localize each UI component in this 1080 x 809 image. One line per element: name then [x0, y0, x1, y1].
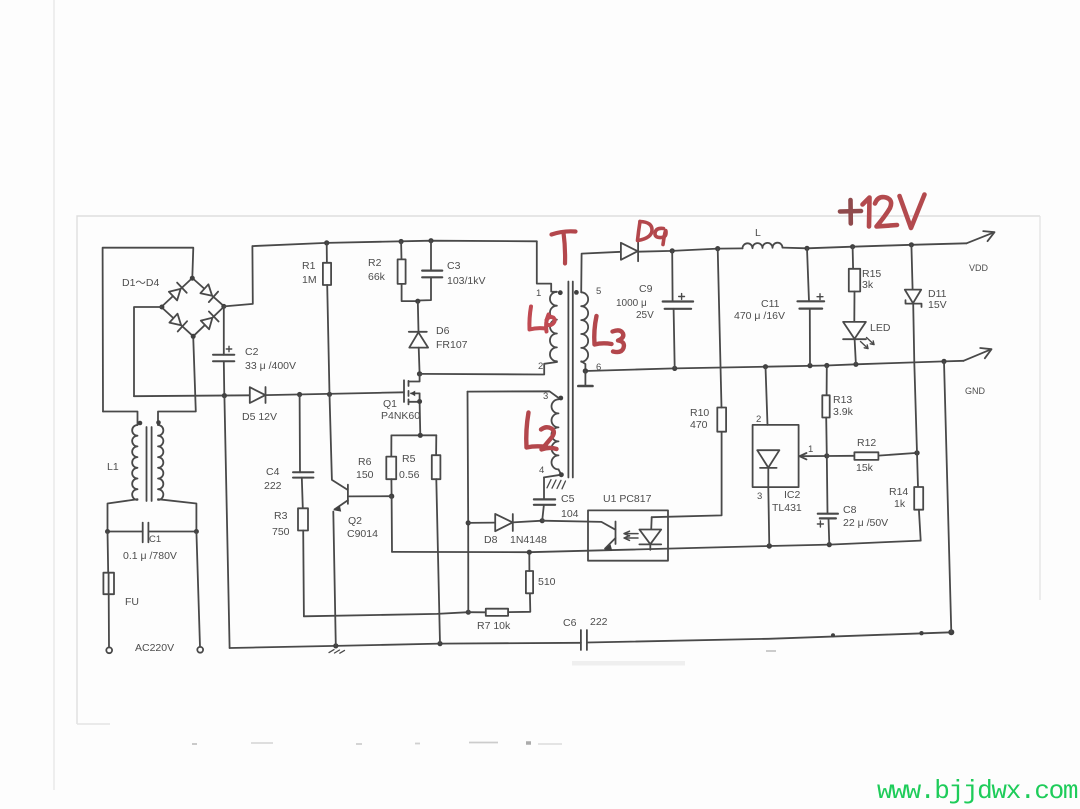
wire R5 R6 top rail: [391, 434, 436, 436]
wire R6 node down to feedback line: [391, 496, 393, 552]
wire choke bottoms: [108, 499, 138, 531]
node Q1 drain junction: [417, 371, 422, 376]
svg-text:P4NK60: P4NK60: [381, 410, 420, 422]
svg-text:R13: R13: [833, 394, 852, 406]
svg-text:6: 6: [596, 362, 601, 373]
wire gate bus right: [266, 392, 404, 395]
ground chassis marks at Q2 emitter node: [329, 650, 345, 654]
diode D1 top-left edge: [169, 283, 187, 301]
diode D9: [621, 242, 638, 261]
fuse FU: [103, 532, 114, 648]
node R12 R14 junction: [914, 450, 919, 455]
wire VDD rail right: [783, 243, 967, 248]
wire D11 to R12 node: [913, 304, 917, 453]
svg-text:2: 2: [756, 414, 761, 425]
L1 phasing dots: [138, 420, 161, 425]
svg-text:0.56: 0.56: [399, 469, 420, 481]
transformer T primary winding Lp pins 1-2: [550, 292, 557, 361]
svg-text:3.9k: 3.9k: [833, 406, 854, 418]
svg-text:C4: C4: [266, 466, 280, 478]
opto phototransistor: [605, 522, 616, 551]
wire top bus to transformer pin 1: [537, 241, 557, 291]
zener D11 vertical from VDD: [911, 245, 912, 290]
diode D2 top-right edge: [200, 284, 218, 302]
svg-text:U1 PC817: U1 PC817: [603, 493, 652, 505]
svg-text:D5 12V: D5 12V: [242, 411, 277, 423]
AC terminal left: [106, 647, 112, 653]
resistor R13: [822, 366, 829, 456]
wire L2 pin4 to C5: [544, 469, 566, 488]
svg-text:C8: C8: [843, 504, 857, 516]
svg-text:GND: GND: [965, 386, 986, 396]
resistor R3: [298, 508, 308, 616]
svg-text:3: 3: [757, 491, 762, 502]
svg-text:R5: R5: [402, 453, 416, 465]
transistor Q2 C9014: [330, 394, 392, 646]
GND output arrow: [964, 348, 992, 361]
capacitor C6 in bus: [581, 630, 587, 650]
wire pin 5 up to D9: [581, 252, 621, 292]
svg-text:R7 10k: R7 10k: [477, 620, 511, 632]
red handwritten annotation T: [552, 231, 576, 263]
capacitor C8: [817, 456, 838, 545]
svg-text:25V: 25V: [636, 310, 654, 321]
diode D3 bottom-left edge: [169, 314, 187, 332]
wire bridge minus to gate bus: [134, 307, 161, 396]
bridge rectifier D1~D4: [161, 278, 224, 336]
faint page fold / scan frame (decorative): [53, 0, 55, 790]
node Q1 source junction: [417, 399, 422, 404]
svg-text:C5: C5: [561, 493, 575, 505]
capacitor C3: [418, 241, 442, 301]
wire pin 6 and GND bus: [581, 361, 585, 371]
wire R3 jog to R7 node: [304, 612, 468, 616]
red handwritten annotation D9: [638, 222, 667, 245]
opto LED: [639, 517, 661, 550]
svg-text:1N4148: 1N4148: [510, 534, 547, 546]
pin 6 stub and bar: [578, 371, 592, 386]
svg-text:0.1 μ /780V: 0.1 μ /780V: [123, 550, 177, 562]
svg-text:3: 3: [543, 391, 548, 402]
resistor R7: [468, 593, 530, 616]
node R2 C3 D6 junction: [415, 299, 420, 304]
node D8 anode junction: [466, 520, 471, 525]
resistor R5: [432, 435, 441, 643]
red handwritten annotation L3: [594, 316, 624, 352]
wire feedback emitter line: [392, 541, 921, 553]
diode D4 bottom-right edge: [201, 312, 219, 330]
wire drain node to transformer pin 2: [420, 362, 557, 375]
zener diode D11: [905, 290, 922, 307]
resistor R1: [323, 243, 331, 394]
diode LED indicator: [843, 322, 874, 364]
node feedback line junctions: [527, 542, 832, 555]
resistor R10: [717, 249, 726, 432]
resistor R15: [849, 247, 860, 322]
svg-text:470: 470: [690, 419, 708, 431]
wire bridge bottom to choke right: [158, 336, 196, 425]
wire AC line1 top-left loop: [103, 248, 194, 412]
svg-text:1M: 1M: [302, 274, 317, 286]
svg-text:C3: C3: [447, 260, 461, 272]
svg-text:FR107: FR107: [436, 339, 468, 351]
svg-text:D8: D8: [484, 534, 498, 546]
node top bus junctions: [324, 238, 434, 245]
svg-text:D6: D6: [436, 325, 450, 337]
transformer L1 common-mode choke: [132, 425, 163, 501]
svg-text:103/1kV: 103/1kV: [447, 275, 486, 287]
faint cropped caption dashes (decorative): [192, 651, 776, 744]
svg-text:D1～D4: D1～D4: [122, 277, 160, 289]
svg-text:222: 222: [264, 480, 282, 492]
wire VDD rail: [638, 248, 742, 251]
wire D8 node to opto collector: [542, 521, 615, 530]
diode D5: [250, 387, 266, 403]
node gate bus junctions: [222, 392, 332, 399]
resistor R12: [827, 452, 917, 460]
wire GND bus to bottom bus far right: [944, 361, 951, 632]
svg-text:104: 104: [561, 508, 579, 520]
node Q2 base R6 junction: [389, 494, 394, 499]
svg-text:1: 1: [536, 288, 541, 299]
svg-text:470 μ /16V: 470 μ /16V: [734, 310, 785, 322]
svg-text:Q2: Q2: [348, 515, 362, 527]
transistor Q1 P4NK60 mosfet: [404, 374, 420, 435]
wire gate bus left: [134, 394, 250, 397]
node bottom bus junctions: [333, 629, 954, 648]
svg-text:C9: C9: [639, 283, 653, 295]
wire bottom bus right of C6: [587, 632, 951, 642]
capacitor C9: [663, 251, 693, 369]
red handwritten annotation Lp: [529, 307, 554, 332]
svg-text:FU: FU: [125, 596, 139, 608]
capacitor C2: [213, 307, 234, 396]
opto coupling arrows: [624, 531, 638, 540]
svg-text:33 μ /400V: 33 μ /400V: [245, 360, 296, 372]
svg-text:1000 μ: 1000 μ: [616, 298, 647, 309]
svg-text:R1: R1: [302, 260, 316, 272]
resistor R6: [386, 435, 396, 496]
node bridge vertices: [159, 276, 226, 339]
svg-text:150: 150: [356, 469, 374, 481]
svg-text:C11: C11: [761, 298, 780, 310]
transformer phasing dots: [558, 290, 579, 400]
svg-text:R14: R14: [889, 486, 908, 498]
capacitor C11: [798, 248, 825, 365]
node VDD rail junctions: [670, 242, 914, 253]
svg-text:R3: R3: [274, 510, 288, 522]
node C1 junctions: [105, 529, 199, 534]
svg-text:www.bjjdwx.com: www.bjjdwx.com: [877, 776, 1078, 806]
wire C2 node down to bottom bus: [224, 396, 229, 648]
diode D6: [409, 301, 428, 374]
svg-text:4: 4: [539, 465, 544, 476]
wire L2 pin3 down to D8: [467, 392, 470, 613]
node R7 left junction: [466, 610, 471, 615]
VDD output arrow: [967, 231, 995, 243]
node GND bus junctions: [583, 359, 947, 374]
svg-text:22 μ /50V: 22 μ /50V: [843, 517, 888, 529]
wire choke left top jog: [103, 412, 138, 426]
capacitor C1: [108, 523, 197, 543]
svg-text:AC220V: AC220V: [135, 642, 174, 654]
wire bottom bus left of C6: [230, 643, 581, 648]
resistor R14: [914, 453, 923, 541]
svg-text:R10: R10: [690, 407, 709, 419]
wire L2 pin3 to D8 branch top: [468, 391, 559, 398]
TL431 symbol: [757, 450, 779, 546]
svg-text:15k: 15k: [856, 462, 874, 474]
svg-text:222: 222: [590, 616, 608, 628]
svg-text:R6: R6: [358, 456, 372, 468]
svg-text:C9014: C9014: [347, 528, 378, 540]
inductor L: [742, 243, 782, 249]
red handwritten annotation +12V: [840, 195, 925, 229]
wire AC line2 down: [196, 532, 200, 647]
capacitor C4: [293, 395, 313, 509]
svg-text:Q1: Q1: [383, 398, 397, 410]
svg-text:66k: 66k: [368, 271, 386, 283]
AC terminal right: [197, 647, 203, 653]
node ref junction: [824, 453, 829, 458]
svg-text:3k: 3k: [862, 279, 874, 291]
red handwritten annotation L2: [526, 413, 556, 450]
svg-text:IC2: IC2: [784, 489, 801, 501]
svg-text:L: L: [755, 227, 761, 239]
svg-text:2: 2: [538, 361, 543, 372]
capacitor C5: [534, 477, 555, 520]
svg-text:C2: C2: [245, 346, 259, 358]
resistor 510: [526, 552, 533, 593]
svg-text:15V: 15V: [928, 299, 947, 311]
svg-text:VDD: VDD: [969, 263, 989, 273]
pin number labels: [536, 286, 813, 502]
svg-text:R12: R12: [857, 437, 876, 449]
svg-text:R2: R2: [368, 257, 382, 269]
wire LED anode jog to R10: [652, 432, 722, 518]
svg-text:C1: C1: [149, 534, 161, 545]
svg-text:C6: C6: [563, 617, 577, 629]
svg-text:510: 510: [538, 576, 556, 588]
svg-text:1k: 1k: [894, 498, 906, 510]
diode D8 1N4148: [468, 514, 542, 531]
wire top bus: [252, 241, 536, 246]
svg-text:750: 750: [272, 526, 290, 538]
transformer T secondary winding L3 pins 5-6: [581, 292, 588, 361]
component value labels: [107, 227, 989, 654]
resistor R2: [398, 242, 418, 302]
svg-text:5: 5: [596, 286, 601, 297]
wire bridge plus to top bus: [224, 246, 253, 306]
transformer T feedback winding L2 pins 3-4: [552, 399, 559, 469]
svg-text:1: 1: [808, 444, 813, 455]
TL431 cathode pin 2 wire: [766, 367, 768, 425]
opto U1 PC817 box: [588, 510, 668, 560]
svg-text:L1: L1: [107, 461, 119, 473]
regulator IC2 TL431 box: [753, 425, 799, 487]
svg-text:TL431: TL431: [772, 502, 802, 514]
transformer T core: [568, 282, 572, 478]
TL431 ref arrow pin 1: [800, 453, 827, 459]
svg-text:LED: LED: [870, 322, 891, 334]
node C5 D8 junction: [540, 518, 545, 523]
